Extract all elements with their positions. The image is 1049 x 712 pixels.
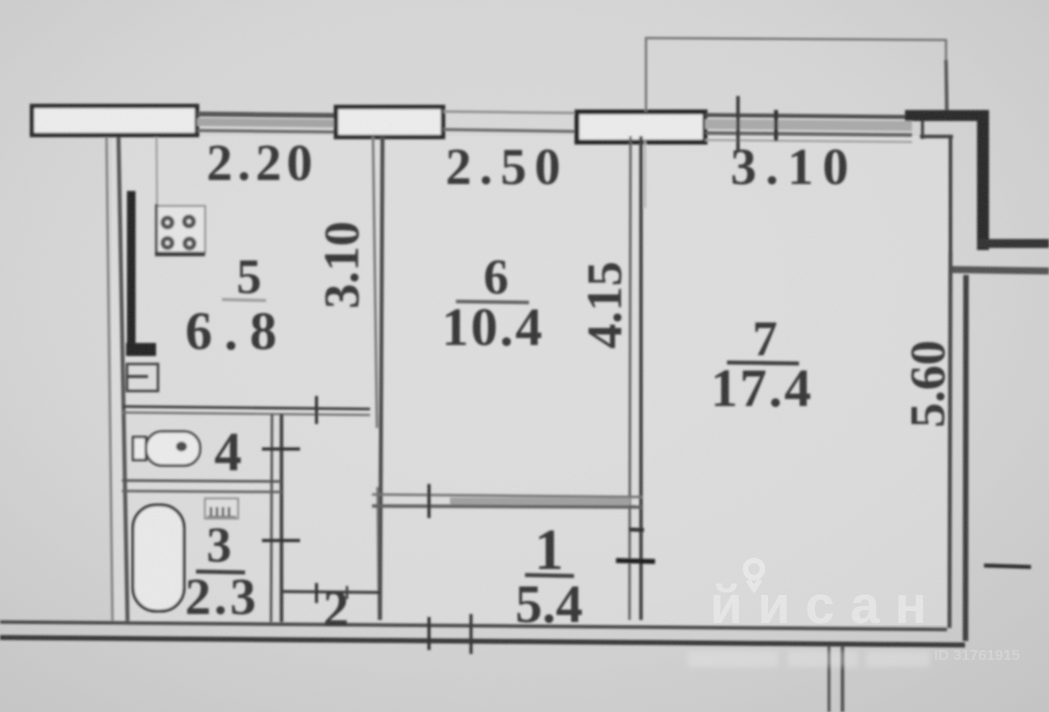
short wall stub x156 (156, 137, 159, 205)
left outer wall (107, 137, 113, 621)
wall between rooms 6 and 7 (630, 136, 631, 620)
window W1 top-left (32, 106, 197, 135)
small mark on wall 6/7 (629, 528, 644, 533)
washbasin (205, 499, 238, 519)
room 6 underline (456, 302, 529, 303)
top-right corner wall block (905, 110, 989, 121)
flat interior slightly lighter (112, 136, 948, 625)
tick on bath wall y449 (262, 447, 300, 450)
wall segment between W1 and W2 (197, 114, 336, 116)
bottom wall tick x429 (427, 617, 430, 650)
wall segment right of W3 (705, 115, 912, 117)
faint line below balcony left edge (644, 140, 646, 208)
wall between bath rooms and hall (271, 414, 272, 622)
wall stub to right edge upper (977, 239, 1049, 248)
balcony right edge emphasis (946, 60, 947, 114)
watermark blurred bottom row (688, 651, 930, 667)
wall between rooms 5 and 6 continuing as hall right wall (373, 136, 377, 428)
right outer wall of room 7 (950, 252, 951, 628)
room 1 underline (525, 575, 574, 576)
kitchen duct thick wall (127, 191, 136, 345)
toilet fixture (133, 437, 146, 460)
dimension tick on right wall (984, 566, 1031, 568)
room 5 underline (222, 300, 266, 301)
room 7 underline (727, 363, 799, 364)
bottom outer wall (0, 622, 947, 630)
wall stub to right edge lower (950, 270, 1049, 272)
watermark pin icon (746, 561, 763, 590)
tick on hall bottom x347 (346, 586, 349, 599)
dimension tick on top wall x738 (736, 96, 740, 151)
balcony outline (646, 38, 946, 112)
hall bottom wall (282, 592, 380, 593)
wall between rooms 4 and 3 (122, 481, 282, 482)
bottom wall tick x468 (469, 614, 472, 654)
wall between corridor 1 and room 6 (372, 495, 643, 498)
kitchen bottom wall (122, 407, 370, 410)
tick on corridor top wall x429 (427, 484, 430, 518)
tick on kitchen bottom wall x316 (315, 396, 318, 424)
bold tick on wall 6/7 (616, 561, 655, 562)
window W3 (577, 112, 705, 142)
room 3 underline (196, 572, 245, 573)
stove (4 burners) (156, 206, 205, 253)
small box fixture below duct (127, 364, 158, 391)
bathtub (133, 505, 184, 611)
dimension tick on top wall x776 (774, 110, 778, 141)
wall segment between W2 and W3 (443, 112, 577, 114)
tick on bath wall y540 (262, 539, 300, 542)
window W2 (336, 107, 443, 137)
wall continuing below plan (828, 646, 831, 712)
tick on hall bottom x316 (315, 583, 318, 603)
